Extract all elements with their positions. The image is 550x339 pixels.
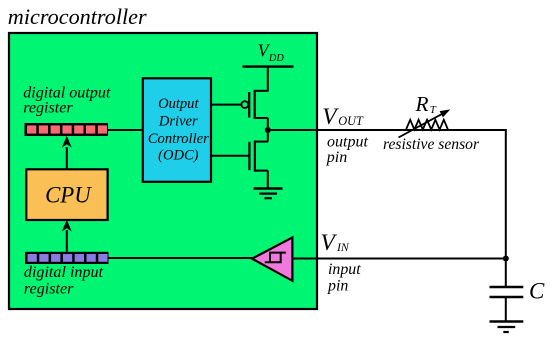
wire: VOUT output line xyxy=(268,129,506,131)
wire: ODC to PMOS gate xyxy=(210,104,241,106)
svg-text:C: C xyxy=(529,278,545,303)
buffer U2 (Schmitt trigger) xyxy=(252,237,292,280)
label VDD xyxy=(258,41,285,65)
node: VIN junction (dot) xyxy=(503,256,509,262)
arrow: digital input register to CPU xyxy=(62,220,72,252)
svg-text:R: R xyxy=(415,92,429,116)
transistor Q2 (NMOS) xyxy=(249,130,267,189)
wire: output register to ODC xyxy=(107,129,144,131)
svg-text:resistive sensor: resistive sensor xyxy=(383,136,480,153)
label: output pin xyxy=(326,133,369,166)
resistor RT (zigzag) xyxy=(406,120,448,130)
label RT xyxy=(415,92,437,116)
svg-text:digital input: digital input xyxy=(24,264,104,281)
ground (NMOS source) xyxy=(254,189,283,199)
node: output node (dot) xyxy=(265,127,271,133)
wire: Schmitt trigger output to input register xyxy=(108,257,254,259)
register bar: digital input register xyxy=(25,252,109,264)
label VOUT xyxy=(322,104,364,130)
svg-text:DD: DD xyxy=(268,53,284,64)
svg-text:Output: Output xyxy=(158,96,199,112)
svg-text:output: output xyxy=(327,133,368,150)
arrow through resistor (variable) xyxy=(399,109,451,137)
svg-text:Controller: Controller xyxy=(148,131,209,147)
svg-text:microcontroller: microcontroller xyxy=(8,4,147,29)
label VIN xyxy=(321,230,350,256)
CPU box xyxy=(26,169,107,220)
ground (capacitor) xyxy=(490,322,524,333)
transistor Q1 (PMOS) xyxy=(241,90,267,131)
svg-text:register: register xyxy=(23,100,73,117)
wire: VIN line (Schmitt trigger to junction) xyxy=(291,258,506,260)
microcontroller body (green box) xyxy=(9,33,317,309)
ODC box (Output Driver Controller) xyxy=(143,78,211,182)
wire: ODC to NMOS gate xyxy=(210,155,249,157)
label: input pin xyxy=(327,261,361,295)
svg-text:Driver: Driver xyxy=(158,114,198,130)
svg-text:T: T xyxy=(430,104,437,116)
svg-text:input: input xyxy=(328,261,361,278)
svg-text:IN: IN xyxy=(336,240,350,254)
svg-text:register: register xyxy=(24,281,74,298)
wire: VDD bar to PMOS source xyxy=(267,67,269,92)
capacitor C (plates) xyxy=(490,287,524,322)
svg-text:pin: pin xyxy=(326,149,347,166)
svg-text:(ODC): (ODC) xyxy=(158,148,199,164)
arrow: CPU to digital output register xyxy=(62,136,72,169)
svg-text:OUT: OUT xyxy=(338,114,364,128)
register bar: digital output register xyxy=(25,123,109,136)
VDD supply bar xyxy=(243,65,294,67)
svg-text:CPU: CPU xyxy=(45,182,92,207)
svg-text:pin: pin xyxy=(327,278,348,295)
wire: right vertical (sensor to capacitor) xyxy=(505,129,507,287)
